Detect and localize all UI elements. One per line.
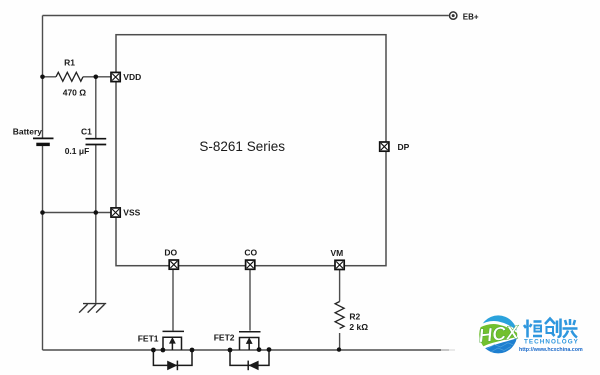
svg-text:R2: R2 <box>349 312 360 322</box>
svg-text:VDD: VDD <box>123 72 141 82</box>
svg-text:2 kΩ: 2 kΩ <box>349 322 368 332</box>
svg-text:FET1: FET1 <box>138 334 159 344</box>
svg-text:R1: R1 <box>64 58 75 68</box>
svg-text:C1: C1 <box>81 127 92 137</box>
svg-text:DO: DO <box>164 248 177 258</box>
svg-text:VM: VM <box>331 248 344 258</box>
svg-text:FET2: FET2 <box>214 333 235 343</box>
svg-text:CO: CO <box>244 248 257 258</box>
svg-text:0.1 μF: 0.1 μF <box>65 146 90 156</box>
svg-text:http://www.hcxchina.com: http://www.hcxchina.com <box>519 347 583 353</box>
svg-text:TECHNOLOGY: TECHNOLOGY <box>524 339 579 346</box>
svg-text:Battery: Battery <box>13 127 43 137</box>
svg-text:EB+: EB+ <box>463 12 479 21</box>
svg-text:470 Ω: 470 Ω <box>63 88 87 98</box>
svg-text:VSS: VSS <box>123 208 140 218</box>
svg-text:S-8261 Series: S-8261 Series <box>199 139 285 154</box>
svg-text:HCX: HCX <box>478 322 521 347</box>
svg-text:DP: DP <box>398 142 410 152</box>
